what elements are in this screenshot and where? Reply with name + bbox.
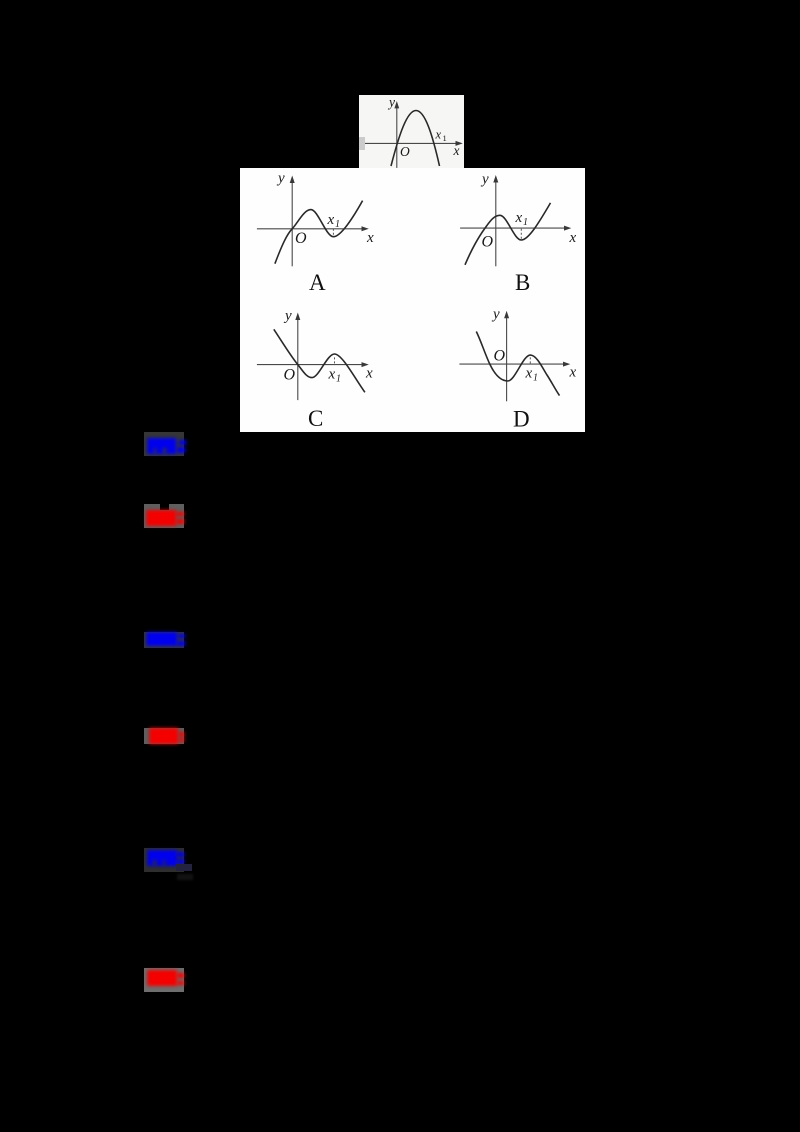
svg-text:x: x (569, 365, 577, 381)
svg-text:1: 1 (523, 217, 528, 228)
svg-text:x: x (365, 366, 373, 382)
svg-text:1: 1 (336, 374, 341, 385)
svg-text:y: y (491, 307, 500, 323)
svg-text:O: O (284, 367, 296, 384)
svg-text:y: y (283, 308, 292, 324)
svg-text:O: O (400, 144, 410, 159)
svg-text:A: A (309, 270, 326, 295)
svg-text:x: x (434, 127, 441, 141)
svg-text:y: y (276, 171, 285, 187)
svg-text:y: y (387, 95, 395, 109)
svg-text:1: 1 (335, 219, 340, 230)
svg-text:x: x (328, 367, 336, 383)
svg-text:x: x (569, 230, 577, 246)
svg-text:x: x (327, 212, 335, 228)
svg-text:y: y (480, 172, 489, 188)
svg-text:O: O (295, 230, 307, 247)
svg-text:x: x (366, 230, 374, 246)
svg-text:x: x (452, 143, 459, 158)
svg-text:x: x (525, 366, 533, 382)
svg-text:D: D (513, 407, 530, 432)
svg-text:1: 1 (533, 373, 538, 384)
svg-text:O: O (494, 348, 506, 365)
svg-text:B: B (515, 270, 530, 295)
svg-text:x: x (515, 210, 523, 226)
svg-text:1: 1 (442, 133, 446, 143)
svg-text:C: C (308, 406, 323, 431)
svg-text:O: O (482, 234, 494, 251)
